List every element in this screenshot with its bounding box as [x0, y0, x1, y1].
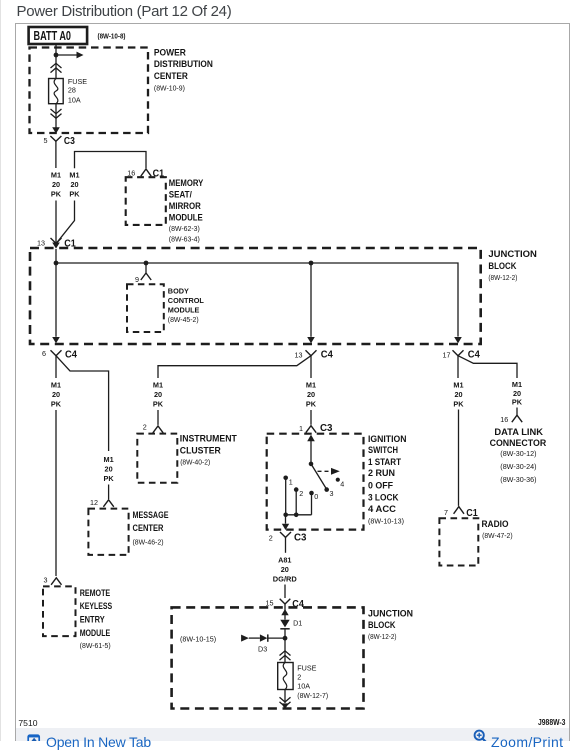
- connector C1 cavity 13: [37, 238, 76, 250]
- wire drop mid to C4: [310, 263, 312, 337]
- branch wire to message center: [56, 356, 109, 451]
- junction block 2 label: [368, 609, 413, 641]
- node dot output2: [294, 513, 299, 518]
- chevron splice down: [51, 109, 62, 118]
- arrowhead left C4: [52, 337, 60, 343]
- message center label: [133, 510, 169, 547]
- junction block 2 box: [172, 607, 364, 708]
- diode D1: [280, 619, 302, 629]
- junction block box: [30, 248, 481, 344]
- switch common wire: [310, 441, 312, 464]
- fuse 2 label: [297, 664, 328, 700]
- wire right main down: [457, 356, 459, 378]
- connector C4 cavity 6: [42, 349, 77, 360]
- node dot JB2: [283, 636, 288, 641]
- wire label M1 20 PK (branch): [69, 171, 80, 199]
- body control module box: [127, 284, 164, 332]
- connector cavity 3: [44, 576, 62, 585]
- connector C3 cavity 2: [269, 532, 307, 544]
- ignition switch box: [267, 434, 364, 530]
- wire into message center: [108, 485, 110, 500]
- fuse 28 10A: [49, 79, 64, 104]
- connector cavity 16 (DLC): [500, 415, 522, 424]
- branch wire lower segment: [56, 201, 74, 244]
- node dot left: [54, 261, 59, 266]
- radio box: [439, 518, 478, 565]
- switch pivot node: [309, 462, 314, 467]
- arrow to other circuits: [56, 52, 84, 59]
- connector C3 cavity 5: [44, 136, 76, 147]
- memory seat mirror module box: [126, 177, 166, 225]
- node dot output1: [283, 513, 288, 518]
- wire BATT to fuse: [55, 44, 57, 79]
- wire to C4 cavity 15: [284, 585, 286, 599]
- wire into DLC: [516, 408, 518, 416]
- connector C4 cavity 17: [443, 350, 481, 361]
- connector C4 cavity 13: [295, 350, 334, 361]
- wire A81: [285, 537, 287, 552]
- node splice dot: [54, 53, 59, 58]
- wire D1 to node: [284, 629, 286, 663]
- branch wire to instrument cluster: [158, 356, 311, 378]
- data link connector label: [490, 427, 547, 484]
- junction block label: [488, 249, 537, 282]
- battery feed BATT A0: [29, 27, 88, 44]
- wire to C3 cavity 2: [285, 515, 287, 524]
- chevron splice down (JB2): [280, 697, 291, 706]
- contact 4: [336, 478, 345, 489]
- arrowhead right C4: [454, 337, 462, 343]
- wire left long drop: [55, 410, 57, 576]
- arrowhead at JB2 entry: [281, 609, 288, 615]
- wire mid down to ignition: [310, 356, 312, 378]
- connector C4 cavity 15: [266, 599, 305, 610]
- wire label M1 20 PK (ignition): [306, 380, 317, 408]
- contact 1: [283, 476, 292, 515]
- feed arrow from 8W-10-15: [241, 635, 249, 642]
- ignition switch label: [368, 434, 407, 525]
- connector cavity 2 (cluster): [143, 422, 163, 433]
- power distribution center label: [154, 47, 213, 92]
- switch output bus: [286, 514, 312, 516]
- wire label A81 20 DG/RD: [273, 555, 297, 583]
- connector cavity 12: [90, 498, 114, 507]
- wire label M1 20 PK (left): [51, 171, 62, 199]
- wire to C1: [55, 201, 57, 248]
- node dot mid: [309, 261, 314, 266]
- contact 3: [324, 487, 333, 498]
- wire fuse to border: [284, 690, 286, 704]
- node dot bcm: [144, 261, 149, 266]
- branch wire to memory module: [75, 152, 147, 169]
- fuse 2 10A: [278, 663, 293, 690]
- wire label M1 20 PK (message): [104, 455, 115, 483]
- zoom print icon: [475, 731, 487, 743]
- fuse label: [68, 77, 87, 105]
- branch wire to data link connector: [458, 356, 517, 378]
- arrowhead at PDC border: [52, 127, 60, 133]
- wire D3 to node: [268, 637, 285, 639]
- body control module label: [168, 286, 205, 324]
- bus wire inside junction block: [56, 249, 458, 337]
- wire into instrument cluster: [157, 410, 159, 425]
- wire into ignition switch: [310, 410, 312, 425]
- chevron splice up (JB2): [280, 651, 291, 660]
- instrument cluster box: [137, 434, 177, 483]
- arrowhead into switch: [307, 435, 315, 442]
- switch blade to contact 3: [311, 464, 327, 490]
- power distribution center box: [30, 48, 149, 134]
- instrument cluster label: [180, 433, 237, 466]
- remote keyless entry module box: [43, 586, 76, 636]
- wire bcm drop: [145, 263, 147, 273]
- wire left main down: [55, 356, 57, 378]
- wire label M1 20 PK (col 6): [51, 380, 62, 408]
- diode D3: [258, 634, 268, 653]
- wire feed to D3: [249, 637, 260, 639]
- contact 2: [294, 487, 303, 514]
- message center box: [88, 509, 128, 555]
- contact 0: [309, 491, 318, 515]
- arrowhead at switch exit: [282, 524, 289, 530]
- wire label M1 20 PK (DLC): [512, 380, 523, 407]
- connector cavity 9: [135, 273, 151, 284]
- wire C3 down: [55, 141, 57, 168]
- wire drop left to C4: [55, 263, 57, 337]
- wire label M1 20 PK (radio): [453, 380, 464, 408]
- connector C1 cavity 7: [444, 507, 478, 519]
- remote keyless entry module label: [80, 588, 113, 650]
- wire fuse to C3: [55, 104, 57, 128]
- memory seat mirror module label: [169, 178, 204, 243]
- wire label M1 20 PK (cluster): [153, 380, 164, 408]
- arrowhead at JB2 border: [281, 703, 288, 709]
- wire long drop to radio: [458, 410, 460, 506]
- wire into junction block 2: [284, 604, 286, 620]
- connector C1 cavity 16: [127, 168, 164, 179]
- open in new tab icon: [28, 735, 39, 744]
- switch motion arrow: [318, 468, 340, 475]
- connector C3 cavity 1: [299, 423, 333, 434]
- arrowhead mid C4: [307, 337, 315, 343]
- chevron splice up: [51, 63, 62, 72]
- radio label: [482, 519, 513, 540]
